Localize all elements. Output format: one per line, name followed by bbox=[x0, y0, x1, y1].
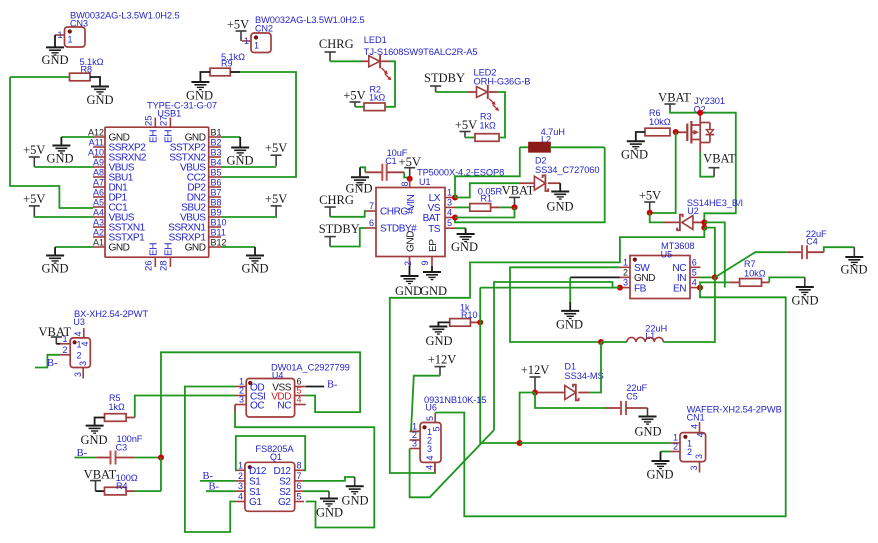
svg-text:CHRG: CHRG bbox=[319, 37, 354, 51]
ground at Q1 pin6 bbox=[320, 498, 338, 500]
svg-text:3: 3 bbox=[239, 395, 244, 405]
svg-text:10kΩ: 10kΩ bbox=[744, 269, 766, 279]
svg-text:GND: GND bbox=[621, 148, 648, 162]
IC U5 MT3608 bbox=[630, 256, 690, 299]
wire Q1 S2 pin7 to ground bbox=[304, 477, 355, 481]
wire +12V rail to CN1 pin1 bbox=[520, 442, 671, 444]
junction IN pin bbox=[712, 274, 718, 280]
wire LX up to L2 bbox=[455, 147, 520, 197]
svg-text:4: 4 bbox=[238, 492, 243, 502]
USB1 pin A11 SSRXP2 bbox=[93, 146, 105, 148]
svg-text:EH: EH bbox=[164, 130, 175, 143]
svg-text:GND: GND bbox=[109, 243, 130, 254]
wire U1 pin9 to ground bbox=[431, 266, 433, 272]
svg-text:1kΩ: 1kΩ bbox=[369, 93, 386, 103]
U1 pin 4 BAT bbox=[445, 217, 455, 219]
svg-text:3: 3 bbox=[73, 372, 83, 377]
U3 pin 3 bottom bbox=[82, 368, 84, 379]
U3 pin 4 top bbox=[83, 328, 85, 338]
wire VDD loop to C3 node bbox=[161, 352, 360, 457]
svg-text:+5V: +5V bbox=[227, 18, 249, 32]
Q1 pin 5 G2 bbox=[295, 501, 304, 503]
junction +5V node bbox=[647, 210, 653, 216]
Q1 pin 1 D12 bbox=[235, 469, 245, 471]
U5 pin 3 FB bbox=[620, 287, 630, 289]
wire CN1 pin2 to ground bbox=[661, 451, 671, 453]
svg-text:GND: GND bbox=[546, 200, 573, 214]
IC U1 TP5000X-4.2-ESOP8 bbox=[376, 188, 445, 257]
svg-text:GND: GND bbox=[646, 468, 673, 482]
wire LED1 cathode to R2 bbox=[381, 60, 390, 62]
svg-text:R9: R9 bbox=[221, 59, 233, 69]
svg-text:GND: GND bbox=[185, 243, 206, 254]
svg-text:5: 5 bbox=[692, 267, 697, 277]
USB1 shell pin 25 bbox=[154, 118, 156, 128]
junction C3 node bbox=[158, 455, 164, 461]
svg-text:B9: B9 bbox=[211, 208, 222, 218]
wire VSS to B- bbox=[306, 386, 324, 388]
junction EN pin bbox=[697, 285, 703, 291]
U1 pin 1 LX bbox=[445, 197, 455, 199]
junction BAT pin node bbox=[452, 215, 458, 221]
svg-text:A5: A5 bbox=[93, 198, 104, 208]
svg-text:+5V: +5V bbox=[265, 192, 287, 206]
svg-text:5: 5 bbox=[297, 492, 302, 502]
wire LED2 cathode to R3 bbox=[489, 91, 497, 93]
svg-text:5: 5 bbox=[447, 218, 452, 228]
svg-text:3: 3 bbox=[412, 439, 417, 449]
svg-text:26: 26 bbox=[144, 260, 155, 271]
wire +12V node to R10 rail and CN1 bbox=[520, 393, 535, 444]
U6 pin 5 top bbox=[434, 413, 436, 423]
+5V port to A4 VBUS bbox=[29, 205, 40, 207]
svg-text:3: 3 bbox=[427, 444, 432, 454]
U4 pin 6 VSS bbox=[295, 386, 306, 388]
svg-text:3: 3 bbox=[238, 481, 243, 491]
USB1 pin A2 SSTXP1 bbox=[93, 236, 105, 238]
wire U6 pin5 to EN rail bbox=[434, 412, 436, 414]
ground at TS bbox=[457, 233, 475, 235]
USB1 pin A9 VBUS bbox=[93, 166, 105, 168]
svg-text:3: 3 bbox=[689, 465, 699, 470]
svg-text:1kΩ: 1kΩ bbox=[109, 402, 126, 412]
wire C4 to ground bbox=[824, 247, 855, 252]
USB1 pin B3 SSTXN2 bbox=[209, 156, 221, 158]
wire L1 to IN rail bbox=[663, 277, 715, 342]
USB1 pin B4 VBUS bbox=[209, 166, 221, 168]
Q1 pin 8 D12 bbox=[295, 469, 304, 471]
USB1 pin A1 GND bbox=[93, 246, 105, 248]
U4 pin 1 OD bbox=[235, 386, 246, 388]
svg-text:10kΩ: 10kΩ bbox=[649, 117, 671, 127]
ground at C4 bbox=[845, 256, 863, 258]
junction +12V node bbox=[532, 390, 538, 396]
wire C5 to ground bbox=[647, 408, 649, 416]
ground at B12 bbox=[246, 255, 264, 257]
IC Q1 FS8205A bbox=[245, 462, 295, 511]
USB1 pin A6 DP1 bbox=[93, 196, 105, 198]
svg-text:U1: U1 bbox=[419, 177, 431, 187]
svg-text:+5V: +5V bbox=[639, 189, 661, 203]
svg-text:6: 6 bbox=[297, 481, 302, 491]
U5 pin 2 GND bbox=[620, 276, 630, 278]
+5V port to A9 VBUS bbox=[29, 156, 40, 158]
svg-text:CHRG#: CHRG# bbox=[380, 207, 414, 218]
Q1 pin 4 G1 bbox=[235, 501, 245, 503]
svg-text:R4: R4 bbox=[116, 481, 128, 491]
svg-text:C3: C3 bbox=[116, 443, 128, 453]
U3 pin 2 bbox=[60, 354, 70, 356]
svg-text:B10: B10 bbox=[211, 218, 227, 228]
svg-text:EP: EP bbox=[428, 239, 439, 252]
svg-text:4: 4 bbox=[73, 331, 83, 336]
wire R4 to VDD node bbox=[126, 490, 134, 492]
svg-text:R7: R7 bbox=[744, 259, 756, 269]
svg-text:TS: TS bbox=[428, 224, 441, 235]
wire R10 node up to FB bbox=[479, 288, 481, 323]
junction LX node bbox=[452, 195, 458, 201]
wire STDBY to pin6 bbox=[330, 228, 366, 247]
svg-text:A3: A3 bbox=[93, 218, 104, 228]
ground for R9 bbox=[191, 81, 209, 83]
svg-text:EH: EH bbox=[149, 130, 160, 143]
svg-text:2: 2 bbox=[62, 345, 67, 355]
ground at A12 bbox=[52, 145, 70, 147]
svg-text:GND: GND bbox=[316, 506, 343, 520]
svg-text:G1: G1 bbox=[249, 497, 262, 508]
svg-text:GND: GND bbox=[840, 263, 867, 277]
svg-text:GND: GND bbox=[41, 53, 68, 67]
U1 pin 9 EP bbox=[431, 256, 433, 266]
U5 pin 1 SW bbox=[620, 266, 630, 268]
svg-text:U5: U5 bbox=[661, 250, 673, 260]
svg-text:EN: EN bbox=[673, 283, 686, 294]
svg-text:R1: R1 bbox=[481, 194, 493, 204]
ground at CN1 bbox=[652, 460, 670, 462]
wire A12 to ground bbox=[61, 136, 93, 138]
svg-text:A2: A2 bbox=[93, 228, 104, 238]
svg-text:D12: D12 bbox=[249, 466, 267, 477]
wire +5V to U2 cathode bbox=[650, 213, 663, 223]
wire VBAT to Q2 source bbox=[670, 110, 700, 112]
svg-text:GND: GND bbox=[41, 262, 68, 276]
svg-text:EH: EH bbox=[149, 243, 160, 256]
U4 pin 5 VDD bbox=[295, 395, 306, 397]
USB1 pin A4 VBUS bbox=[93, 216, 105, 218]
svg-text:Q1: Q1 bbox=[270, 452, 282, 462]
wire R10 to ground bbox=[438, 322, 449, 326]
svg-text:B8: B8 bbox=[211, 198, 222, 208]
wire A1 to ground bbox=[55, 246, 93, 248]
wire Q2 drain to VBAT bbox=[700, 152, 714, 177]
svg-text:BX-XH2.54-2PWT: BX-XH2.54-2PWT bbox=[74, 309, 148, 319]
wire +12V to U6 pin1 bbox=[411, 376, 440, 432]
USB1 pin B6 DP2 bbox=[209, 186, 221, 188]
wire VBAT to U3 pin1 bbox=[56, 343, 60, 345]
svg-text:GND: GND bbox=[46, 152, 73, 166]
svg-text:D12: D12 bbox=[273, 466, 291, 477]
svg-text:A1: A1 bbox=[93, 238, 104, 248]
svg-text:NC: NC bbox=[277, 401, 291, 412]
svg-text:4: 4 bbox=[692, 278, 697, 288]
svg-text:A7: A7 bbox=[93, 178, 104, 188]
wire OC to Q1 G2 bbox=[234, 405, 236, 414]
svg-text:CHRG: CHRG bbox=[319, 193, 354, 207]
svg-text:1: 1 bbox=[623, 257, 628, 267]
wire U3 pin2 to B- bbox=[35, 355, 60, 368]
wire IN pin to junction bbox=[700, 276, 715, 278]
svg-text:GND: GND bbox=[634, 425, 661, 439]
svg-text:+5V: +5V bbox=[23, 143, 45, 157]
wire L2 return to BAT node bbox=[455, 147, 605, 222]
svg-text:GND: GND bbox=[791, 294, 818, 308]
svg-text:B-: B- bbox=[203, 471, 214, 482]
USB1 pin A5 CC1 bbox=[93, 206, 105, 208]
CN1 pin 1 bbox=[670, 442, 680, 444]
svg-text:VBAT: VBAT bbox=[703, 152, 736, 166]
U4 pin 2 CSI bbox=[235, 395, 246, 397]
svg-text:B11: B11 bbox=[211, 228, 226, 238]
U6 pin 1 bbox=[410, 430, 421, 432]
+5V port at R3 bbox=[460, 131, 471, 133]
USB1 pin B11 SSRXP1 bbox=[209, 236, 221, 238]
svg-text:U6: U6 bbox=[425, 403, 437, 413]
svg-text:6: 6 bbox=[692, 257, 697, 267]
+5V port at CN2 bbox=[236, 30, 247, 32]
svg-text:+5V: +5V bbox=[455, 118, 477, 132]
svg-text:G2: G2 bbox=[278, 497, 291, 508]
svg-text:9: 9 bbox=[420, 260, 430, 265]
USB1 pin A8 SBU1 bbox=[93, 176, 105, 178]
Q1 pin 2 S1 bbox=[235, 480, 245, 482]
ground at R5 bbox=[86, 425, 104, 427]
Q1 pin 7 S2 bbox=[295, 480, 304, 482]
svg-text:1: 1 bbox=[254, 41, 259, 51]
wire +5V to R3 bbox=[465, 137, 475, 139]
USB1 pin B9 VBUS bbox=[209, 216, 221, 218]
svg-text:GND: GND bbox=[556, 318, 583, 332]
VBAT port at U3 bbox=[51, 336, 62, 338]
USB1 pin B12 GND bbox=[209, 246, 221, 248]
svg-text:LED1: LED1 bbox=[364, 35, 387, 45]
wire R9 to CC2 pin B5 bbox=[230, 71, 240, 73]
resistor R10 1k bbox=[450, 319, 471, 327]
wire R9 to ground bbox=[200, 72, 210, 82]
wire VDD node down to R4 bbox=[160, 458, 162, 492]
svg-text:4: 4 bbox=[425, 455, 435, 460]
wire node down to U6 supply loop bbox=[390, 228, 705, 473]
svg-text:B12: B12 bbox=[211, 238, 227, 248]
svg-text:GND: GND bbox=[80, 433, 107, 447]
wire R10 right lead bbox=[470, 321, 480, 323]
ground for CN3 bbox=[46, 46, 64, 48]
wire R10 node down to +12V rail bbox=[480, 322, 519, 443]
svg-text:C4: C4 bbox=[806, 237, 818, 247]
svg-text:BAT: BAT bbox=[423, 213, 441, 224]
U1 pin 8 VIN bbox=[409, 179, 411, 188]
ground at D2 bbox=[551, 191, 569, 193]
+5V port at R2 bbox=[350, 101, 361, 103]
U1 pin 5 TS bbox=[445, 227, 455, 229]
CN1 pin 4 top bbox=[699, 422, 701, 433]
svg-text:GND: GND bbox=[420, 284, 447, 298]
svg-text:GND: GND bbox=[341, 494, 368, 508]
wire node to IN rail bbox=[704, 228, 715, 278]
svg-text:4: 4 bbox=[425, 465, 435, 470]
svg-text:2: 2 bbox=[77, 350, 82, 360]
svg-text:6: 6 bbox=[369, 218, 374, 228]
+5V port to B4 VBUS bbox=[271, 154, 282, 156]
U1 pin 7 CHRG# bbox=[366, 210, 377, 212]
ground at B1 bbox=[231, 147, 249, 149]
wire OD to Q1 G1 bbox=[185, 387, 235, 533]
USB1 pin B8 SBU2 bbox=[209, 206, 221, 208]
wire Q1 S2 pin6 to ground bbox=[304, 490, 329, 492]
+5V port at U2 bbox=[644, 201, 655, 203]
ground for R8 bbox=[91, 86, 109, 88]
svg-text:CN2: CN2 bbox=[255, 24, 273, 34]
wire CN3 pin1 to ground bbox=[54, 35, 56, 47]
Q1 pin 3 S1 bbox=[235, 490, 245, 492]
wire CSI to R5 bbox=[135, 396, 235, 418]
svg-text:B-: B- bbox=[47, 358, 58, 369]
svg-text:ORH-G36G-B: ORH-G36G-B bbox=[474, 77, 531, 87]
VBAT port below Q2 bbox=[713, 168, 715, 177]
wire STDBY to LED2 bbox=[436, 91, 468, 93]
wire U5 GND pin to ground bbox=[570, 276, 620, 278]
svg-text:GND: GND bbox=[406, 231, 417, 252]
USB1 pin B7 DN2 bbox=[209, 196, 221, 198]
svg-text:25: 25 bbox=[144, 115, 155, 126]
ground at C5 bbox=[639, 416, 657, 418]
svg-text:STDBY: STDBY bbox=[424, 71, 465, 85]
svg-text:C5: C5 bbox=[626, 392, 638, 402]
svg-text:27: 27 bbox=[159, 115, 170, 126]
wire U1 TS to ground bbox=[455, 227, 466, 229]
USB1 shell pin 28 bbox=[169, 257, 171, 267]
ground at U1 pin2 bbox=[401, 275, 419, 277]
svg-text:OC: OC bbox=[250, 401, 264, 412]
IC U4 DW01A_C2927799 bbox=[246, 379, 294, 418]
U1 pin 6 STDBY# bbox=[366, 227, 377, 229]
svg-text:GND: GND bbox=[425, 334, 452, 348]
ground at R7 bbox=[796, 286, 814, 288]
USB1 pin A10 SSRXN2 bbox=[93, 156, 105, 158]
wire R5 to CSI rail bbox=[126, 417, 135, 419]
svg-text:+12V: +12V bbox=[521, 363, 550, 377]
svg-text:CN1: CN1 bbox=[687, 413, 705, 423]
CN1 pin 2 bbox=[670, 451, 680, 453]
wire B- to Q1 S1 pin3 bbox=[206, 490, 235, 492]
svg-text:1: 1 bbox=[57, 30, 62, 40]
USB1 pin B1 GND bbox=[209, 136, 221, 138]
VBAT port at R1 bbox=[509, 196, 520, 198]
svg-text:VBAT: VBAT bbox=[84, 468, 117, 482]
svg-text:2: 2 bbox=[673, 442, 678, 452]
svg-text:3: 3 bbox=[623, 278, 628, 288]
svg-text:3: 3 bbox=[447, 198, 452, 208]
junction diode node lower bbox=[701, 225, 707, 231]
wire U2 anode to node bbox=[693, 221, 704, 223]
USB1 pin B2 SSTXP2 bbox=[209, 146, 221, 148]
U1 pin 3 VS bbox=[445, 206, 455, 208]
junction diode node upper bbox=[701, 219, 707, 225]
wire +5V to R2 bbox=[355, 106, 364, 108]
svg-text:2: 2 bbox=[238, 471, 243, 481]
svg-text:1: 1 bbox=[68, 35, 73, 45]
svg-text:VBAT: VBAT bbox=[658, 91, 691, 105]
svg-text:B-: B- bbox=[209, 482, 220, 493]
junction at VIN bbox=[407, 176, 413, 182]
wire C1 to ground bbox=[360, 167, 365, 172]
VBAT port above Q2 bbox=[665, 103, 676, 105]
svg-text:4: 4 bbox=[297, 395, 302, 405]
wire CHRG to LED1 bbox=[330, 60, 361, 62]
svg-text:+5V: +5V bbox=[343, 89, 365, 103]
svg-text:+5V: +5V bbox=[23, 192, 45, 206]
U1 pin 2 GND bbox=[409, 256, 411, 266]
svg-text:1: 1 bbox=[238, 460, 243, 470]
svg-text:B1: B1 bbox=[211, 128, 222, 138]
junction R6 gate node bbox=[673, 129, 679, 135]
svg-text:A9: A9 bbox=[93, 158, 104, 168]
svg-text:7: 7 bbox=[369, 201, 374, 211]
svg-text:VBAT: VBAT bbox=[38, 325, 71, 339]
U5 pin 5 IN bbox=[690, 276, 700, 278]
svg-text:D2: D2 bbox=[535, 156, 547, 166]
+12V port right bbox=[530, 376, 541, 378]
wire IN junction diagonal to C4 bbox=[715, 252, 787, 277]
wire EN to R7 bbox=[700, 282, 729, 287]
U5 pin 6 NC bbox=[690, 266, 701, 268]
+5V port at U1 VIN bbox=[404, 167, 415, 169]
USB1 shell pin 26 bbox=[154, 257, 156, 267]
svg-text:4: 4 bbox=[447, 208, 452, 218]
svg-text:U4: U4 bbox=[272, 371, 284, 381]
svg-text:+12V: +12V bbox=[428, 353, 457, 367]
ground at A1 bbox=[46, 255, 64, 257]
svg-text:GND: GND bbox=[395, 284, 422, 298]
svg-text:A4: A4 bbox=[93, 208, 104, 218]
svg-text:7: 7 bbox=[297, 471, 302, 481]
svg-text:3: 3 bbox=[78, 361, 88, 366]
svg-text:D1: D1 bbox=[565, 362, 577, 372]
wire B- to Q1 S1 pin2 bbox=[200, 480, 235, 482]
wire R6 to ground bbox=[636, 132, 645, 141]
svg-text:+5V: +5V bbox=[265, 141, 287, 155]
svg-text:A11: A11 bbox=[89, 138, 104, 148]
wire R6 node down to +5V node bbox=[650, 132, 676, 213]
U4 pin 4 NC bbox=[295, 404, 306, 406]
USB1 pin A3 SSTXN1 bbox=[93, 226, 105, 228]
svg-text:SS34-MS: SS34-MS bbox=[565, 371, 604, 381]
ground at C1 bbox=[351, 176, 369, 178]
svg-text:VBAT: VBAT bbox=[502, 184, 535, 198]
svg-text:B3: B3 bbox=[211, 148, 222, 158]
U6 pin 2 bbox=[410, 439, 421, 441]
svg-text:GND: GND bbox=[86, 93, 113, 107]
wire Q1 D12 loop bbox=[235, 436, 305, 470]
ground at R6 bbox=[627, 140, 645, 142]
wire R8 to ground bbox=[90, 77, 100, 86]
svg-text:GND: GND bbox=[451, 240, 478, 254]
svg-text:2: 2 bbox=[403, 261, 413, 266]
wire U6 pin3 diagonal to FB divider bbox=[410, 430, 494, 497]
svg-text:STDBY: STDBY bbox=[319, 222, 360, 236]
svg-text:GND: GND bbox=[241, 262, 268, 276]
svg-text:2: 2 bbox=[623, 267, 628, 277]
U6 pin 3 bbox=[410, 448, 421, 450]
